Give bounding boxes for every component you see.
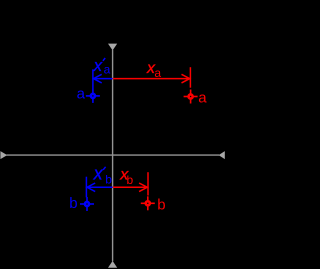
prime of x'_a [103, 58, 105, 61]
arrow x'_a (blue, axis to tick) [94, 78, 113, 80]
svg-text:b: b [69, 195, 77, 212]
svg-text:x: x [93, 164, 104, 184]
y-axis bottom arrowhead [108, 261, 117, 268]
arrowhead of x_b [139, 183, 147, 192]
svg-text:b: b [105, 173, 112, 187]
arrow x_a (red, axis to tick) [113, 78, 190, 80]
prime of x'_b [103, 167, 105, 170]
point a (red) marker [184, 90, 198, 104]
tick at x'_b (blue) [85, 177, 87, 198]
svg-text:b: b [157, 196, 165, 213]
tick at x'_a (blue) [92, 69, 94, 89]
svg-text:a: a [104, 62, 111, 76]
point b (red) marker [141, 196, 155, 210]
arrowhead of x'_a [94, 74, 102, 83]
arrowhead of x_a [182, 74, 190, 83]
y-axis top arrowhead [108, 44, 117, 51]
x-axis line [7, 154, 220, 156]
point b (blue) marker [80, 197, 94, 211]
x-axis right arrowhead [219, 151, 225, 159]
x-axis left arrowhead [0, 151, 7, 159]
svg-text:b: b [127, 173, 134, 187]
svg-text:x: x [93, 56, 103, 75]
arrowhead of x'_b [87, 183, 95, 192]
y-axis line [112, 50, 114, 261]
arrow x_b (red, axis to tick) [113, 186, 147, 188]
arrow x'_b (blue, axis to tick) [87, 186, 113, 188]
point a (blue) marker [86, 89, 100, 103]
tick at x_b (red) [147, 172, 149, 195]
svg-text:a: a [198, 90, 207, 107]
svg-text:a: a [77, 86, 86, 103]
tick at x_a (red) [189, 67, 191, 88]
